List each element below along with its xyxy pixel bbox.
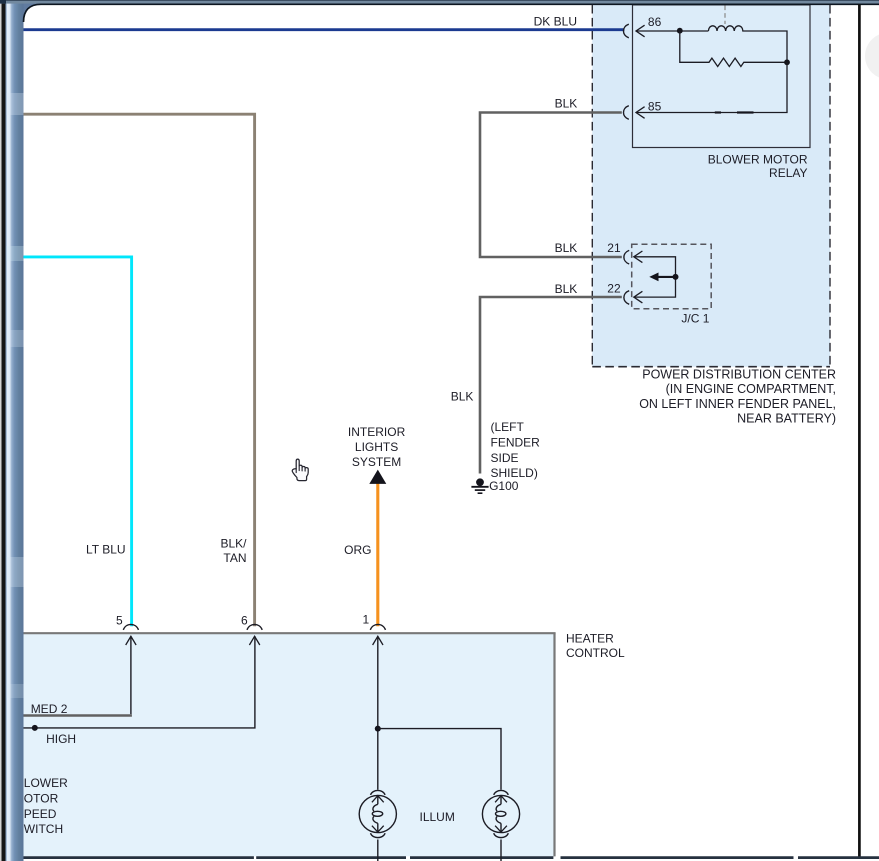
frame reflections [7,93,24,115]
svg-text:J/C 1: J/C 1 [681,311,709,325]
heater pin 5 connector [123,624,138,629]
arrow to interior lights system [369,470,386,484]
heater wire HIGH [24,636,255,728]
J/C pin 22 connector [624,291,629,305]
heater control box fill [24,634,555,856]
heater pin 6 connector [247,624,262,629]
relay coil L1 [708,26,787,63]
svg-text:(IN ENGINE COMPARTMENT,: (IN ENGINE COMPARTMENT, [666,382,836,396]
relay resistor branch [680,31,787,67]
hidden wire dashed above coil [724,6,726,25]
svg-text:1: 1 [363,613,370,627]
heater pin 6 arrow [249,636,259,645]
svg-text:ON LEFT INNER FENDER PANEL,: ON LEFT INNER FENDER PANEL, [639,397,836,411]
wire BLK pin85 to pin21 [480,113,622,258]
lamp ILLUM left [359,790,396,861]
svg-text:BLK: BLK [555,241,578,255]
scrollbar circle top-right [865,33,879,80]
J/C junction dot [673,274,679,280]
svg-text:WITCH: WITCH [24,822,63,836]
heater control box right border [553,633,555,856]
relay pin 86 connector [623,24,628,38]
svg-text:6: 6 [241,614,248,628]
wire BLK pin22 to ground [480,297,622,474]
page bottom line segments [24,856,879,859]
svg-text:(LEFT: (LEFT [491,420,525,434]
heater pin 1 arrow [373,636,383,645]
relay pin 85 wire [636,62,787,112]
svg-text:LIGHTS: LIGHTS [355,440,398,454]
svg-text:BLK: BLK [555,97,578,111]
lamp ILLUM right [482,790,519,861]
svg-text:OTOR: OTOR [24,791,59,805]
svg-text:G100: G100 [489,479,519,493]
svg-text:ORG: ORG [344,543,371,557]
svg-text:85: 85 [648,100,662,114]
wire BLK/TAN [24,114,255,626]
heater pin 5 wire MED 2 [130,636,132,714]
PDC dashed boundary bottom [592,366,830,368]
svg-text:POWER DISTRIBUTION CENTER: POWER DISTRIBUTION CENTER [642,368,836,382]
svg-text:LT BLU: LT BLU [86,543,126,557]
PDC dashed boundary right [829,5,831,367]
J/C pin 22 arrow [634,291,643,303]
svg-text:BLK/: BLK/ [220,536,247,550]
junction dot illum [375,726,381,732]
wire ORG [376,482,379,626]
frame corner fill behind rounded page corner [24,0,46,26]
junction dot resistor [784,59,790,65]
J/C pin 21 arrow [634,251,643,263]
svg-text:HIGH: HIGH [46,732,76,746]
blower motor relay box [633,5,811,148]
svg-text:SIDE: SIDE [491,451,519,465]
svg-text:5: 5 [116,614,123,628]
heater pin 1 connector [370,624,385,629]
svg-text:DK BLU: DK BLU [534,14,577,28]
J/C internal wire [634,257,676,297]
svg-text:21: 21 [607,241,621,255]
junction dot 86 [677,28,683,34]
page top border [24,4,879,22]
relay pin 85 connector [623,106,628,120]
svg-text:RELAY: RELAY [769,166,807,180]
heater control box top border [24,632,556,634]
svg-text:HEATER: HEATER [566,631,614,645]
page right edge line [858,4,861,857]
relay pin 85 arrow [636,107,645,119]
wire to right lamp [378,729,501,790]
svg-text:INTERIOR: INTERIOR [348,425,406,439]
svg-text:BLK: BLK [555,282,578,296]
junction connector J/C 1 dashed box [632,244,712,308]
svg-text:BLK: BLK [451,390,474,404]
svg-text:BLOWER MOTOR: BLOWER MOTOR [708,152,808,166]
window left frame strip [0,0,24,861]
svg-text:MED 2: MED 2 [31,702,68,716]
dash marks on pin 85 wire [715,111,721,113]
wire LT BLU [24,257,132,626]
window top bar [0,0,879,4]
wire DK BLU [24,28,625,31]
J/C pin 21 connector [624,250,629,264]
svg-text:FENDER: FENDER [491,436,541,450]
svg-text:NEAR BATTERY): NEAR BATTERY) [737,411,836,425]
svg-text:LOWER: LOWER [24,776,68,790]
svg-text:SYSTEM: SYSTEM [352,455,401,469]
relay coil wire [636,30,708,32]
relay pin 86 arrow [636,25,645,37]
ground G100 [476,478,484,486]
junction dot HIGH [32,725,38,731]
svg-text:22: 22 [607,281,621,295]
svg-text:TAN: TAN [223,551,246,565]
svg-text:CONTROL: CONTROL [566,646,625,660]
J/C splice arrow [657,276,676,278]
power distribution center region fill [592,5,830,367]
svg-text:ILLUM: ILLUM [420,810,455,824]
mouse cursor [292,459,308,481]
heater pin 1 wire [377,636,379,790]
svg-text:PEED: PEED [24,807,57,821]
svg-text:86: 86 [648,15,662,29]
PDC dashed boundary left [591,5,593,367]
heater pin 5 arrow [126,636,136,645]
